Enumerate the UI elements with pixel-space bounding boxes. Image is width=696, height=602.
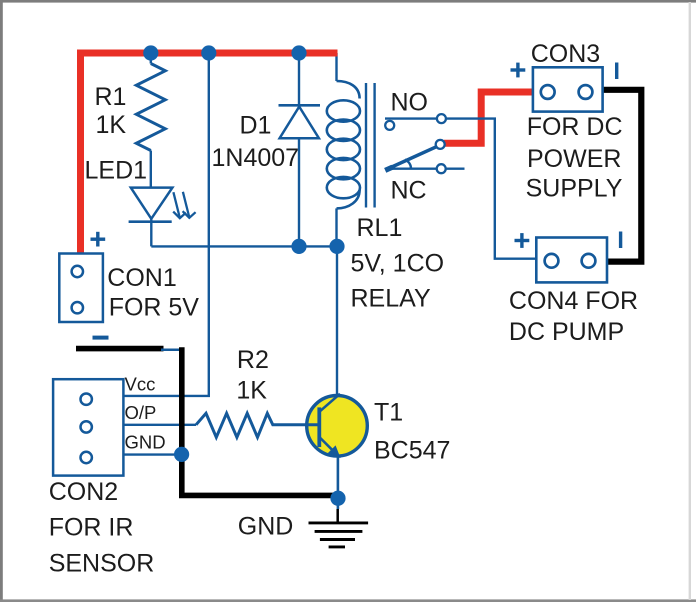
svg-text:1K: 1K bbox=[96, 111, 127, 139]
ground symbol bar 4 bbox=[329, 545, 345, 548]
transistor T1 body (yellow) bbox=[307, 396, 368, 457]
relay armature angle arc bbox=[405, 160, 411, 169]
LED LED1 cathode bar bbox=[129, 220, 172, 223]
frame border left bbox=[0, 0, 3, 602]
resistor R2 zigzag with leads into T1 base bbox=[196, 413, 318, 437]
relay NO contact circle bbox=[437, 114, 446, 123]
LED LED1 triangle bbox=[131, 188, 173, 219]
connector CON1 box bbox=[59, 254, 103, 323]
CON4 minus bar bbox=[619, 232, 622, 249]
relay RL1 coil loop 3 bbox=[327, 139, 360, 160]
wire: red +5V rail (left vertical and top horizontal) bbox=[81, 53, 338, 254]
svg-text:FOR 5V: FOR 5V bbox=[109, 294, 200, 322]
relay RL1 coil bottom hook bbox=[337, 190, 360, 208]
relay RL1 core line 1 bbox=[365, 83, 367, 208]
ground symbol bar 3 bbox=[320, 538, 355, 541]
svg-text:1K: 1K bbox=[236, 376, 267, 404]
transistor T1 base bar bbox=[317, 407, 321, 447]
diode D1 cathode bar bbox=[279, 104, 321, 107]
relay moving contact circle bbox=[436, 140, 445, 149]
svg-text:GND: GND bbox=[238, 512, 294, 540]
wire: emitter down to ground node bbox=[337, 456, 340, 498]
frame border top bbox=[0, 0, 696, 3]
wire: coil bottom lead down to collector node bbox=[335, 208, 337, 246]
svg-text:R1: R1 bbox=[95, 83, 127, 111]
relay armature pivot wedge bbox=[385, 167, 392, 170]
relay RL1 coil top lead bbox=[335, 53, 337, 81]
relay RL1 coil loop 1 bbox=[327, 100, 360, 121]
CON3 plus sign bbox=[511, 68, 526, 71]
wire: horizontal node row y=246 from LED1 to relay/collector node bbox=[151, 245, 337, 247]
wire: red pole-to-CON3 wire bbox=[444, 92, 534, 143]
CON3 minus bar bbox=[615, 63, 618, 80]
LED LED1 emission arrow 2 bbox=[183, 192, 196, 218]
frame border bottom bbox=[0, 599, 696, 602]
node: D1 anode / node row junction bbox=[291, 239, 306, 254]
relay NC contact circle bbox=[437, 164, 446, 173]
relay COM terminal circle bbox=[385, 121, 394, 130]
svg-text:RL1: RL1 bbox=[357, 214, 403, 242]
wire: R1 to LED1 bbox=[150, 151, 152, 188]
ground symbol bar 1 bbox=[309, 521, 369, 524]
svg-text:CON2: CON2 bbox=[49, 478, 118, 506]
wire: blue connector between black segments bbox=[161, 349, 181, 352]
node: +5V rail / D1 junction bbox=[291, 45, 306, 60]
diode D1 triangle bbox=[280, 107, 319, 139]
CON4 plus sign bbox=[515, 239, 530, 242]
wire: CON2 GND pin lead bbox=[124, 453, 182, 455]
svg-text:SUPPLY: SUPPLY bbox=[526, 174, 623, 202]
svg-text:D1: D1 bbox=[240, 112, 272, 140]
transistor T1 collector diagonal bbox=[319, 394, 340, 412]
connector CON4 box bbox=[536, 238, 607, 283]
wire: black CON1 minus horizontal bbox=[76, 346, 164, 352]
svg-text:BC547: BC547 bbox=[374, 436, 450, 464]
wire: CON2 O/P pin lead bbox=[124, 424, 197, 426]
svg-text:RELAY: RELAY bbox=[351, 285, 431, 313]
wire: NO contact line, right to corner, down and to CON4 + bbox=[385, 119, 536, 259]
connector CON1 pin 1 bbox=[72, 266, 83, 277]
wire: D1 bottom lead bbox=[298, 138, 300, 246]
wire: D1 top lead bbox=[298, 53, 300, 105]
connector CON2 pin 3 bbox=[81, 452, 92, 463]
svg-text:POWER: POWER bbox=[527, 145, 621, 173]
svg-text:CON4 FOR: CON4 FOR bbox=[509, 287, 638, 315]
relay armature (moving pole) bbox=[385, 146, 437, 170]
svg-text:CON1: CON1 bbox=[107, 264, 176, 292]
svg-text:NC: NC bbox=[391, 177, 427, 205]
svg-text:5V, 1CO: 5V, 1CO bbox=[351, 249, 445, 277]
resistor R1 zigzag bbox=[136, 64, 165, 151]
svg-text:DC PUMP: DC PUMP bbox=[509, 318, 624, 346]
svg-text:T1: T1 bbox=[374, 398, 403, 426]
connector CON2 pin 1 bbox=[81, 394, 92, 405]
frame border right faint bbox=[689, 2, 691, 600]
svg-text:NO: NO bbox=[391, 89, 429, 117]
wire: +5V rail branch down to Vcc then left to CON2 bbox=[124, 53, 209, 396]
connector CON3 pin 1 bbox=[541, 85, 555, 99]
ground symbol bar 2 bbox=[315, 530, 363, 533]
wire: LED1 cathode down to node row bbox=[150, 219, 152, 247]
svg-text:FOR IR: FOR IR bbox=[49, 513, 134, 541]
wire: blue stub below ground node dot bbox=[337, 498, 340, 509]
svg-text:Vcc: Vcc bbox=[125, 374, 156, 395]
connector CON3 pin 2 bbox=[579, 85, 593, 99]
connector CON4 pin 2 bbox=[582, 254, 596, 268]
connector CON3 box bbox=[533, 67, 603, 111]
svg-text:SENSOR: SENSOR bbox=[49, 550, 155, 578]
connector CON2 box bbox=[53, 379, 123, 475]
wire: R1 top lead from +5V rail bbox=[150, 53, 152, 64]
node: +5V rail / Vcc branch junction bbox=[201, 45, 216, 60]
relay RL1 coil loop 5 bbox=[327, 177, 360, 198]
LED LED1 emission arrow 1 bbox=[173, 192, 186, 218]
svg-text:GND: GND bbox=[125, 432, 166, 453]
relay RL1 coil top hook bbox=[337, 81, 360, 99]
svg-text:LED1: LED1 bbox=[85, 157, 148, 185]
svg-text:O/P: O/P bbox=[125, 402, 157, 423]
connector CON1 pin 2 bbox=[72, 302, 83, 313]
svg-text:FOR DC: FOR DC bbox=[527, 113, 623, 141]
connector CON4 pin 1 bbox=[545, 254, 559, 268]
wire: collector vertical from node down to T1 bbox=[336, 246, 338, 396]
transistor T1 emitter arrowhead bbox=[330, 447, 339, 456]
node: CON2 GND / ground bus junction bbox=[174, 447, 189, 462]
relay RL1 coil loop 2 bbox=[327, 120, 360, 141]
CON1 plus sign bbox=[91, 237, 106, 240]
node: emitter / ground junction bbox=[330, 491, 345, 506]
wire: black ground bus vertical and bottom horizontal bbox=[182, 347, 336, 495]
relay NC contact line bbox=[385, 167, 465, 169]
relay RL1 core line 2 bbox=[373, 83, 375, 208]
svg-text:CON3: CON3 bbox=[531, 40, 600, 68]
wire: black CON3 minus to CON4 minus bbox=[602, 90, 641, 262]
node: relay coil / collector junction bbox=[329, 239, 344, 254]
svg-text:1N4007: 1N4007 bbox=[212, 144, 300, 172]
transistor T1 emitter diagonal bbox=[319, 437, 338, 456]
CON1 minus sign bbox=[93, 336, 109, 340]
ground symbol stub bbox=[336, 509, 339, 522]
node: +5V rail / R1 junction bbox=[143, 45, 158, 60]
relay RL1 coil loop 4 bbox=[327, 158, 360, 179]
connector CON2 pin 2 bbox=[81, 421, 92, 432]
svg-text:R2: R2 bbox=[237, 346, 269, 374]
